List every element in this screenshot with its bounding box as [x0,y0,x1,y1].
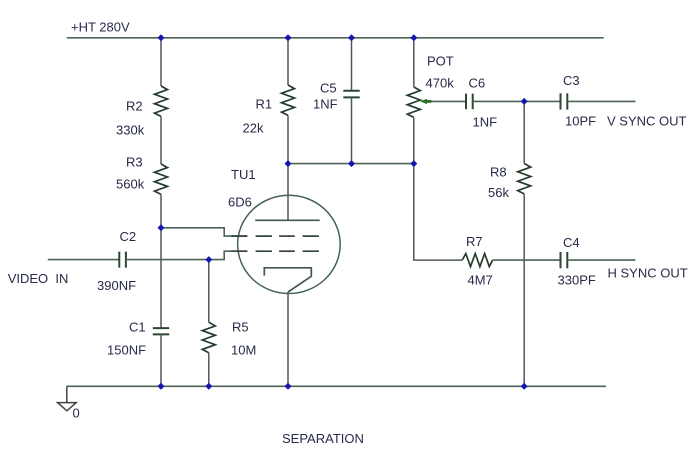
svg-text:VIDEO IN: VIDEO IN [8,271,69,286]
wire R2 top stub [160,38,162,86]
junction grid1 wire / R3 column [158,224,165,231]
wire C5 bottom stub [351,97,353,163]
wire R8 top stub [523,101,525,163]
svg-text:TU1: TU1 [231,167,256,182]
resistor R7 [462,254,492,267]
svg-text:V SYNC OUT: V SYNC OUT [607,114,687,129]
svg-text:H SYNC OUT: H SYNC OUT [608,266,688,281]
wire R5 top stub [208,260,210,323]
wire cathode to rail [287,292,289,386]
svg-text:C1: C1 [129,320,146,335]
svg-text:R7: R7 [466,234,483,249]
potentiometer POT 470k [407,87,420,117]
svg-text:+HT 280V: +HT 280V [71,20,130,35]
wire video input [48,259,120,261]
svg-text:330PF: 330PF [558,273,596,288]
wire R3 to C1 [160,194,162,328]
wire C2 to grid 2 [126,251,248,259]
svg-text:C3: C3 [563,73,580,88]
tube anode stem [287,164,289,221]
svg-text:22k: 22k [243,121,264,136]
svg-text:R5: R5 [232,320,249,335]
svg-text:10PF: 10PF [565,114,596,129]
resistor R8 [518,164,531,194]
wire bottom ground rail [67,385,606,387]
svg-text:R2: R2 [126,99,143,114]
junction top rail / R2 [158,34,165,41]
junction anode bus / C5 [348,160,355,167]
junction bottom rail / cathode [285,383,292,390]
junction anode bus / POT bottom [410,160,417,167]
capacitor C6 [466,94,473,110]
capacitor C3 [561,93,568,109]
junction top rail / R1 [285,34,292,41]
svg-text:1NF: 1NF [313,97,338,112]
svg-text:1NF: 1NF [473,115,498,130]
wire R1 top stub [287,38,289,85]
svg-text:C4: C4 [563,235,580,250]
triode TU1 envelope [238,195,341,293]
junction video wire / R5 [205,256,212,263]
svg-text:56k: 56k [488,185,509,200]
wire anode bus [288,163,414,165]
capacitor C5 [343,91,359,98]
wire C3 to V sync out [567,100,635,102]
svg-text:10M: 10M [231,343,256,358]
tube grid 1 dashes [231,235,319,237]
wire C5 top stub [351,38,353,91]
junction anode bus / R1 [285,160,292,167]
tube anode plate [255,219,320,221]
svg-text:560k: 560k [116,177,145,192]
wire POT bottom to H row [414,117,462,260]
resistor R3 [155,164,168,194]
tube grid 2 dashes [231,250,319,252]
svg-text:4M7: 4M7 [468,273,493,288]
wire R8 to rail [523,194,525,386]
junction bottom rail / R5 [205,383,212,390]
svg-text:0: 0 [73,406,80,421]
svg-text:390NF: 390NF [97,278,136,293]
capacitor C2 [119,252,126,268]
junction bottom rail / R8 [521,383,528,390]
svg-text:6D6: 6D6 [228,195,252,210]
svg-text:R8: R8 [490,165,507,180]
wire POT top stub [413,38,415,87]
svg-text:R1: R1 [256,97,273,112]
svg-text:C6: C6 [469,76,486,91]
svg-text:SEPARATION: SEPARATION [282,431,364,446]
wire R7 to C4 [493,259,561,261]
svg-text:POT: POT [427,54,454,69]
svg-text:330k: 330k [116,123,145,138]
wire C6 to C3 [473,100,561,102]
resistor R5 [202,322,215,352]
wire C1 to rail [160,334,162,386]
svg-text:C5: C5 [320,81,337,96]
junction bottom rail / C1 [158,383,165,390]
wire grid 1 from R3 junction [161,228,248,236]
wire wiper to C6 [431,100,466,102]
junction top rail / POT [410,34,417,41]
junction top rail / C5 [348,34,355,41]
resistor R1 [282,85,295,115]
ground [58,386,77,411]
wire +HT top rail [67,37,604,39]
capacitor C1 [153,328,169,334]
svg-text:R3: R3 [126,155,143,170]
capacitor C4 [561,252,568,268]
tube cathode [264,268,311,292]
svg-text:C2: C2 [120,229,137,244]
pot wiper arrow [420,99,432,104]
wire C4 to H sync out [567,259,635,261]
junction V sync row / R8 [521,98,528,105]
wire R2-R3 [160,116,162,164]
wire R5 to rail [208,353,210,387]
svg-text:470k: 470k [426,76,455,91]
wire R1 to anode bus [287,115,289,163]
resistor R2 [155,86,168,116]
svg-text:150NF: 150NF [107,343,146,358]
